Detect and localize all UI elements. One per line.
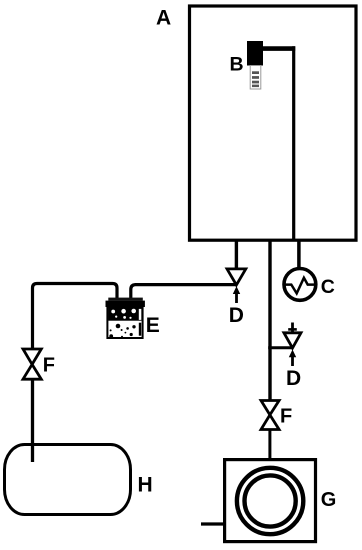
svg-text:G: G bbox=[321, 489, 337, 511]
sensor B head bbox=[247, 41, 263, 66]
main wire chamber bottom to valve F2 bbox=[268, 239, 271, 401]
valve D1 arrow bbox=[233, 286, 240, 303]
tank H bbox=[5, 445, 131, 515]
label D2 bbox=[286, 367, 301, 390]
label A bbox=[156, 7, 171, 30]
wire valve F1 to tank H bbox=[31, 380, 34, 463]
label E bbox=[146, 314, 160, 337]
wire bubbler E left tube to valve F1 bbox=[33, 284, 118, 350]
pump G outer circle bbox=[237, 468, 303, 534]
label F1 bbox=[43, 355, 55, 377]
svg-text:H: H bbox=[138, 474, 153, 497]
wire from B horizontal bbox=[262, 46, 295, 51]
label D1 bbox=[229, 304, 244, 327]
label B bbox=[230, 54, 244, 76]
wire valve F2 to pump G bbox=[268, 430, 271, 460]
gauge C circle bbox=[284, 269, 316, 301]
pump G outlet wire bbox=[201, 522, 224, 525]
wire from B down to chamber bottom bbox=[292, 46, 295, 239]
valve D2 triangle bbox=[284, 333, 301, 348]
label F2 bbox=[280, 406, 292, 428]
valve D2 vent stub bbox=[288, 323, 297, 333]
svg-text:D: D bbox=[286, 367, 301, 390]
svg-text:F: F bbox=[280, 406, 292, 428]
valve D2 arrow bbox=[289, 350, 296, 367]
valve F1 bowtie bbox=[23, 349, 41, 379]
wire D1 tip to bubbler E right tube bbox=[131, 285, 236, 298]
chamber A box bbox=[190, 6, 357, 240]
label G bbox=[321, 489, 337, 511]
svg-text:E: E bbox=[146, 314, 160, 337]
svg-text:F: F bbox=[43, 355, 55, 377]
svg-text:C: C bbox=[321, 276, 335, 298]
wire chamber bottom to gauge C bbox=[297, 239, 301, 269]
label H bbox=[138, 474, 153, 497]
sensor B threaded stem bbox=[250, 66, 261, 90]
valve D1 triangle bbox=[227, 269, 246, 285]
svg-text:B: B bbox=[230, 54, 244, 76]
svg-text:A: A bbox=[156, 7, 171, 30]
pump G inner circle bbox=[245, 475, 296, 526]
svg-text:D: D bbox=[229, 304, 244, 327]
wire chamber bottom to valve D1 bbox=[235, 239, 238, 270]
valve F2 bowtie bbox=[261, 401, 279, 430]
pump G box bbox=[225, 460, 316, 542]
bubbler E bbox=[106, 298, 145, 339]
branch wire to valve D2 bbox=[268, 346, 292, 349]
label C bbox=[321, 276, 335, 298]
